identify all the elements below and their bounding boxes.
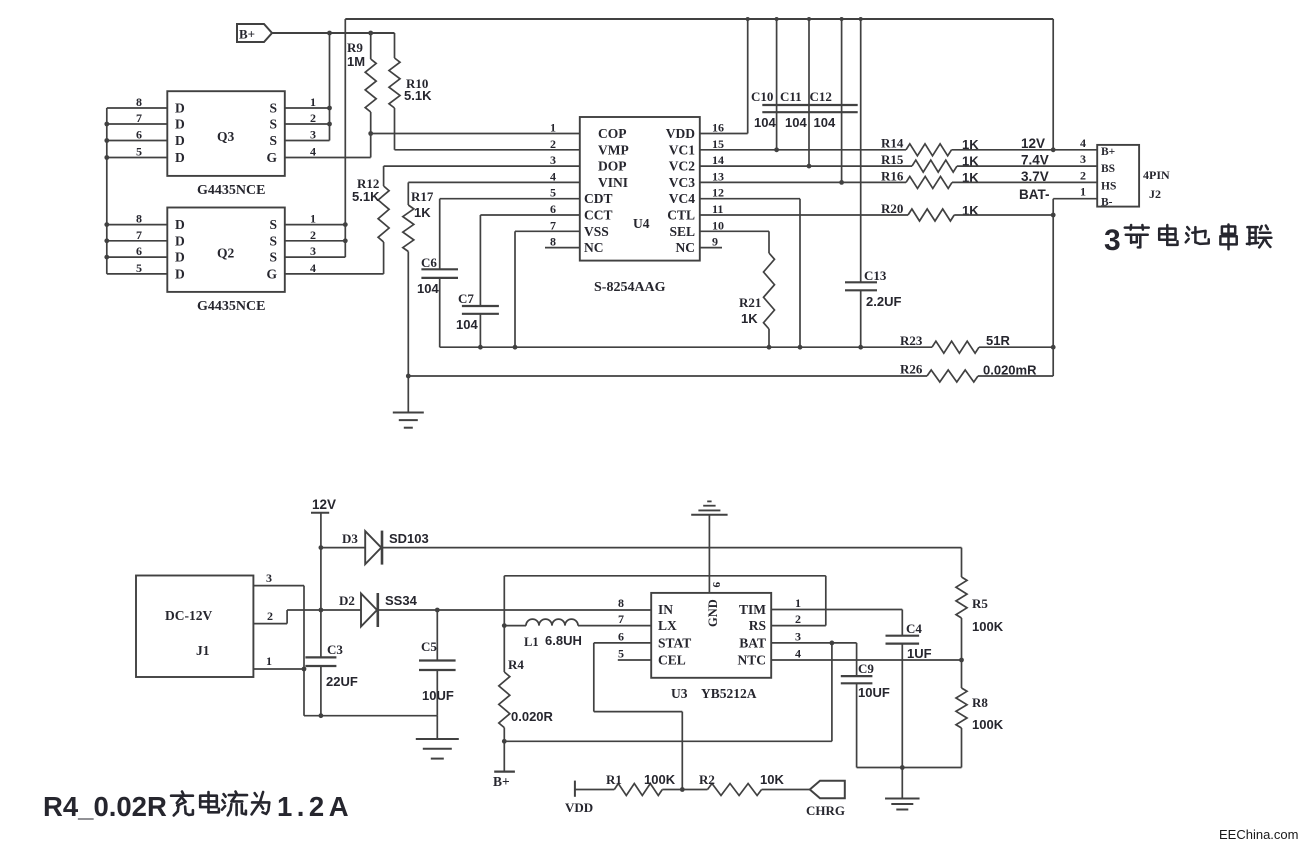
junction R20 / BAT- drop [1051, 213, 1056, 218]
svg-text:D3: D3 [342, 531, 358, 546]
charger IC U3 YB5212A [651, 593, 771, 678]
svg-text:7: 7 [136, 228, 142, 242]
wire J1 pin2 to D2 node [287, 609, 321, 611]
svg-text:5: 5 [136, 261, 142, 275]
svg-text:VINI: VINI [598, 175, 628, 190]
svg-text:100K: 100K [644, 772, 676, 787]
svg-text:NC: NC [584, 240, 604, 255]
capacitor C12 [841, 19, 843, 182]
wire Q2 pin 7 stub [107, 240, 168, 242]
svg-text:R21: R21 [739, 295, 761, 310]
svg-text:S: S [269, 117, 277, 132]
svg-text:VMP: VMP [598, 142, 629, 157]
junction J1 pin1 / pin3 drop [302, 667, 307, 672]
wire R23 row right [979, 346, 1053, 348]
svg-text:R16: R16 [881, 169, 904, 184]
connector J2 4PIN [1097, 145, 1139, 207]
junction Q3 pin1 tee [327, 106, 332, 111]
svg-text:D: D [175, 250, 185, 265]
svg-text:4: 4 [550, 169, 556, 183]
svg-text:GND: GND [706, 599, 720, 627]
junction VSS / R23 row [513, 345, 518, 350]
wire BAT- row to J2 pin1 [1053, 198, 1097, 200]
diode D3 SD103 [321, 547, 365, 549]
junction C11 / VC2 row [807, 164, 812, 169]
junction VC4 / R23 row [798, 345, 803, 350]
svg-text:9: 9 [710, 582, 722, 588]
wire Q2 pin 1 stub [285, 224, 346, 226]
svg-text:6: 6 [136, 128, 142, 142]
junction C7 bottom / R23 row [478, 345, 483, 350]
svg-text:8: 8 [136, 95, 142, 109]
wire VINI row [408, 181, 580, 183]
wire charger gnd row [857, 767, 962, 769]
svg-text:4PIN: 4PIN [1143, 168, 1170, 182]
svg-text:B+: B+ [1101, 146, 1115, 158]
svg-text:B-: B- [1101, 197, 1113, 209]
wire Q3 gate stub [285, 157, 371, 159]
wire STAT drop [593, 643, 595, 712]
svg-text:1: 1 [266, 654, 272, 668]
wire VDD up to rail [747, 19, 749, 134]
capacitor C11 [808, 19, 810, 166]
transistor Q2 [167, 208, 284, 292]
resistor R5 [961, 548, 963, 577]
svg-text:B+: B+ [493, 774, 510, 789]
ground above U3 [691, 514, 727, 516]
junction R17 bottom / R26 row [406, 374, 411, 379]
transistor Q3 [167, 91, 284, 176]
svg-text:VC4: VC4 [669, 191, 695, 206]
svg-text:10UF: 10UF [422, 688, 454, 703]
svg-text:D: D [175, 233, 185, 248]
svg-text:BAT: BAT [739, 635, 766, 650]
resistor R20 [908, 209, 954, 221]
wire J1 pin3 drop [303, 586, 305, 716]
wire R23 row left [440, 346, 932, 348]
svg-text:7: 7 [550, 218, 556, 232]
svg-text:CEL: CEL [658, 653, 686, 668]
wire SEL row [700, 230, 769, 232]
svg-text:1: 1 [1080, 185, 1086, 199]
wire STAT stub [594, 642, 651, 644]
wire Q2 pin 5 stub [107, 273, 168, 275]
svg-text:5.1K: 5.1K [352, 189, 380, 204]
svg-text:6.8UH: 6.8UH [545, 633, 582, 648]
capacitor C13 [860, 19, 862, 282]
resistor R23 [932, 341, 979, 353]
svg-text:R8: R8 [972, 695, 988, 710]
svg-text:2: 2 [1080, 168, 1086, 182]
svg-text:4: 4 [795, 647, 801, 661]
wire VSS row [515, 230, 580, 232]
svg-text:3: 3 [310, 128, 316, 142]
svg-text:B+: B+ [239, 27, 255, 42]
wire Q2 gate stub [285, 273, 384, 275]
svg-text:3: 3 [795, 629, 801, 643]
svg-text:C11: C11 [780, 89, 802, 104]
wire top rail B+ [345, 18, 1053, 20]
ground under C5 [436, 716, 438, 739]
resistor R14 [906, 144, 952, 156]
svg-text:15: 15 [712, 137, 724, 151]
svg-text:D: D [175, 266, 185, 281]
junction C10 / VC1 row [774, 147, 779, 152]
wire J1 pin3 stub [253, 585, 304, 587]
svg-text:6: 6 [136, 244, 142, 258]
svg-text:L1: L1 [524, 635, 539, 649]
wire RS row [771, 625, 826, 627]
svg-text:10UF: 10UF [858, 685, 890, 700]
svg-text:D: D [175, 101, 185, 116]
junction R21 bottom / R23 row [767, 345, 772, 350]
wire Q3 pin 2 stub [285, 123, 330, 125]
svg-text:Q3: Q3 [217, 129, 235, 144]
wire CDT row [440, 198, 580, 200]
svg-text:12: 12 [712, 186, 724, 200]
svg-text:S: S [269, 101, 277, 116]
wire LX node drop [503, 576, 505, 626]
svg-text:13: 13 [712, 169, 724, 183]
svg-text:16: 16 [712, 121, 724, 135]
svg-text:C6: C6 [421, 255, 437, 270]
svg-text:5: 5 [136, 145, 142, 159]
svg-text:2: 2 [310, 228, 316, 242]
svg-text:S: S [269, 133, 277, 148]
junction R9 bottom / COP node [368, 131, 373, 136]
junction 12V / D3 anode [319, 545, 324, 550]
svg-text:G: G [266, 266, 277, 281]
junction R4 bottom / B+ row [502, 739, 507, 744]
resistor R21 [764, 253, 775, 329]
svg-text:NTC: NTC [737, 653, 766, 668]
wire R26 row left [408, 375, 927, 377]
svg-text:S: S [269, 250, 277, 265]
svg-text:CCT: CCT [584, 208, 613, 223]
svg-text:SD103: SD103 [389, 531, 429, 546]
resistor R1 [614, 784, 662, 796]
resistor R26 [927, 370, 978, 382]
junction rail tee [859, 17, 863, 21]
wire STAT across [594, 711, 683, 713]
svg-text:C9: C9 [858, 661, 874, 676]
svg-text:12V: 12V [1021, 136, 1045, 151]
svg-text:C10: C10 [751, 89, 773, 104]
svg-text:14: 14 [712, 153, 724, 167]
wire Q3 S pins vertical [329, 33, 331, 141]
svg-text:R4: R4 [508, 657, 524, 672]
junction rail drop / Q2 pin2 [343, 238, 348, 243]
wire R16 to J2 pin2 [952, 181, 1097, 183]
svg-text:C5: C5 [421, 639, 437, 654]
svg-text:VC1: VC1 [669, 142, 695, 157]
svg-text:HS: HS [1101, 181, 1116, 193]
junction drain bus tee [104, 238, 109, 243]
wire Q3 gate up to COP node [370, 134, 372, 158]
junction BAT / B+ riser [830, 641, 835, 646]
svg-text:C7: C7 [458, 291, 474, 306]
wire rail right drop to J2 pin4 row [1052, 19, 1054, 150]
svg-text:DC-12V: DC-12V [165, 608, 212, 623]
svg-text:2.2UF: 2.2UF [866, 294, 901, 309]
junction BAT- / R23 row [1051, 345, 1056, 350]
svg-text:D: D [175, 117, 185, 132]
wire J1 pin2 stub [253, 623, 287, 625]
svg-text:5: 5 [550, 186, 556, 200]
wire J1 pin2 jog up [286, 610, 288, 624]
wire Q3 pin 6 stub [107, 140, 168, 142]
wire Q2 pin 3 stub [285, 256, 346, 258]
wire RS loop top [504, 575, 826, 577]
svg-text:VSS: VSS [584, 224, 609, 239]
wire CTL row left [700, 214, 908, 216]
svg-text:R5: R5 [972, 596, 988, 611]
wire R14 to J2 pin4 [952, 149, 1098, 151]
svg-text:D: D [175, 133, 185, 148]
junction rail drop / Q2 pin1 [343, 222, 348, 227]
svg-text:RS: RS [749, 618, 766, 633]
junction B+ / R9 top [368, 31, 373, 36]
svg-text:R26: R26 [900, 362, 923, 377]
svg-text:BS: BS [1101, 163, 1115, 175]
svg-text:G: G [266, 150, 277, 165]
svg-text:51R: 51R [986, 333, 1010, 348]
svg-text:104: 104 [785, 115, 807, 130]
svg-text:SEL: SEL [669, 224, 695, 239]
svg-text:0.020R: 0.020R [511, 709, 554, 724]
svg-text:2: 2 [550, 137, 556, 151]
svg-text:104: 104 [417, 281, 439, 296]
junction rail tee [746, 17, 750, 21]
svg-text:J2: J2 [1149, 187, 1161, 201]
wire R2 to CHRG flag [762, 789, 810, 791]
inductor L1 6.8UH [504, 625, 526, 627]
svg-text:8: 8 [550, 235, 556, 249]
svg-text:EEChina.com: EEChina.com [1219, 827, 1298, 842]
svg-text:1K: 1K [741, 311, 758, 326]
svg-text:6: 6 [550, 202, 556, 216]
svg-text:J1: J1 [196, 643, 210, 658]
svg-text:U4: U4 [633, 216, 650, 231]
wire Q3 pin 8 stub [107, 107, 168, 109]
svg-text:7.4V: 7.4V [1021, 153, 1049, 168]
wire VC2 row left [700, 165, 912, 167]
wire BAT- drop [1052, 199, 1054, 376]
resistor R12 [378, 186, 389, 242]
wire VC4 row [700, 198, 800, 200]
svg-text:DOP: DOP [598, 159, 627, 174]
junction rail tee [807, 17, 811, 21]
junction drain bus tee [104, 155, 109, 160]
svg-text:C13: C13 [864, 268, 887, 283]
capacitor C6 [439, 199, 441, 270]
svg-text:TIM: TIM [739, 602, 766, 617]
wire B+ to R10 top [272, 32, 395, 34]
svg-text:VDD: VDD [666, 126, 695, 141]
svg-text:5: 5 [618, 647, 624, 661]
svg-text:S: S [269, 217, 277, 232]
svg-text:1.2A: 1.2A [277, 791, 353, 822]
svg-text:100K: 100K [972, 619, 1004, 634]
svg-text:Q2: Q2 [217, 246, 235, 261]
svg-text:1UF: 1UF [907, 646, 932, 661]
svg-text:3.7V: 3.7V [1021, 169, 1049, 184]
svg-text:IN: IN [658, 602, 673, 617]
svg-text:3: 3 [1080, 152, 1086, 166]
svg-text:R15: R15 [881, 152, 904, 167]
terminal VDD [574, 781, 576, 797]
junction C3 bottom / gnd row [319, 713, 324, 718]
wire Q3 pin 7 stub [107, 123, 168, 125]
capacitor plates C10-C12 [762, 104, 857, 106]
junction NTC / R5R8 [959, 658, 964, 663]
wire Q3 pin 3 stub [285, 140, 330, 142]
resistor R10 [389, 58, 400, 108]
svg-text:SS34: SS34 [385, 593, 418, 608]
wire VC3 row left [700, 181, 906, 183]
diode D2 SS34 [321, 609, 361, 611]
svg-text:R9: R9 [347, 40, 363, 55]
svg-text:LX: LX [658, 618, 677, 633]
svg-text:4: 4 [310, 261, 316, 275]
resistor R4 [503, 626, 505, 672]
svg-text:104: 104 [754, 115, 776, 130]
wire R1 to junction [662, 789, 707, 791]
junction drain bus tee [104, 138, 109, 143]
svg-text:NC: NC [676, 240, 696, 255]
resistor R15 [912, 160, 957, 172]
svg-text:C4: C4 [906, 621, 922, 636]
svg-text:2: 2 [795, 612, 801, 626]
svg-text:1: 1 [310, 212, 316, 226]
resistor R8 [961, 660, 963, 688]
svg-text:D2: D2 [339, 593, 355, 608]
wire VDD row [700, 133, 748, 135]
svg-text:2: 2 [310, 111, 316, 125]
wire Q3 pin 1 stub [285, 107, 330, 109]
wire Q2 pin 8 stub [107, 224, 168, 226]
svg-text:R14: R14 [881, 136, 904, 151]
svg-text:6: 6 [618, 629, 624, 643]
capacitor C9 [856, 643, 858, 676]
svg-text:C12: C12 [810, 89, 832, 104]
svg-text:4: 4 [1080, 136, 1086, 150]
svg-text:R20: R20 [881, 201, 903, 216]
svg-text:5.1K: 5.1K [404, 88, 432, 103]
net flag CHRG [810, 781, 845, 799]
svg-text:2: 2 [267, 609, 273, 623]
wire 12V drop [320, 513, 322, 610]
svg-text:STAT: STAT [658, 635, 691, 650]
svg-text:4: 4 [310, 145, 316, 159]
svg-text:22UF: 22UF [326, 674, 358, 689]
junction D2 row / C5 [435, 608, 440, 613]
wire VSS down [514, 231, 516, 347]
wire drain bus [106, 108, 108, 274]
op-amp U4 S-8254AAG [580, 117, 700, 261]
wire COP row [371, 133, 580, 135]
wire Q2 pin 2 stub [285, 240, 346, 242]
connector J1 DC-12V [136, 576, 253, 678]
resistor R17 [403, 205, 414, 252]
junction C13 / R23 row [858, 345, 863, 350]
wire VDD to R1 [575, 789, 614, 791]
wire input gnd row [304, 715, 437, 717]
junction drain bus tee [104, 122, 109, 127]
svg-text:R1: R1 [606, 772, 622, 787]
svg-text:G4435NCE: G4435NCE [197, 299, 265, 314]
svg-text:10: 10 [712, 218, 724, 232]
svg-text:8: 8 [136, 212, 142, 226]
wire R26 row right [978, 375, 1053, 377]
wire CCT row [480, 214, 579, 216]
svg-text:VC2: VC2 [669, 159, 695, 174]
svg-text:VC3: VC3 [669, 175, 695, 190]
resistor R16 [906, 176, 952, 188]
wire VC4 down to R23 row [799, 199, 801, 348]
wire NC8 stub [545, 247, 580, 249]
svg-text:8: 8 [618, 596, 624, 610]
wire R20 right to BAT- drop [954, 214, 1053, 216]
wire J1 pin1 stub [253, 668, 304, 670]
svg-text:D: D [175, 217, 185, 232]
capacitor C10 [776, 19, 778, 150]
wire RS loop right drop [825, 576, 827, 626]
capacitor C3 [320, 610, 322, 657]
wire VC1 row left [700, 149, 906, 151]
svg-text:CDT: CDT [584, 191, 613, 206]
wire B+ riser [831, 643, 833, 741]
svg-text:7: 7 [618, 612, 624, 626]
ground bottom right [901, 768, 903, 799]
junction drain bus tee [104, 255, 109, 260]
junction rail drop / 12V row [1051, 147, 1056, 152]
junction Q3 pin2 tee [327, 122, 332, 127]
net flag B+ [237, 24, 272, 42]
svg-text:VDD: VDD [565, 800, 593, 815]
wire U3 GND pin up [708, 515, 710, 593]
wire STAT drop2 [681, 712, 683, 790]
wire CEL stub [618, 659, 651, 661]
svg-text:U3: U3 [671, 686, 688, 701]
svg-text:CHRG: CHRG [806, 803, 845, 818]
svg-text:3: 3 [1104, 224, 1121, 257]
wire VMP row [395, 149, 580, 151]
svg-text:S: S [269, 233, 277, 248]
junction B+ / Q3 sources [327, 31, 332, 36]
svg-text:104: 104 [814, 115, 836, 130]
svg-text:1: 1 [550, 121, 556, 135]
svg-text:R23: R23 [900, 333, 923, 348]
svg-text:1: 1 [795, 596, 801, 610]
svg-text:S-8254AAG: S-8254AAG [594, 280, 666, 295]
capacitor C7 [479, 215, 481, 306]
terminal B+ [503, 741, 505, 771]
svg-text:G4435NCE: G4435NCE [197, 183, 265, 198]
junction drain bus tee [104, 222, 109, 227]
svg-text:7: 7 [136, 111, 142, 125]
wire NC9 stub [700, 247, 722, 249]
capacitor C5 [436, 610, 438, 661]
wire DOP row [384, 165, 580, 167]
svg-text:YB5212A: YB5212A [701, 686, 757, 701]
wire NTC row [771, 659, 961, 661]
svg-text:BAT-: BAT- [1019, 187, 1050, 202]
junction LX node [502, 623, 507, 628]
svg-text:10K: 10K [760, 772, 784, 787]
wire rail left drop to Q2 S pins [344, 19, 346, 257]
svg-text:3: 3 [266, 571, 272, 585]
